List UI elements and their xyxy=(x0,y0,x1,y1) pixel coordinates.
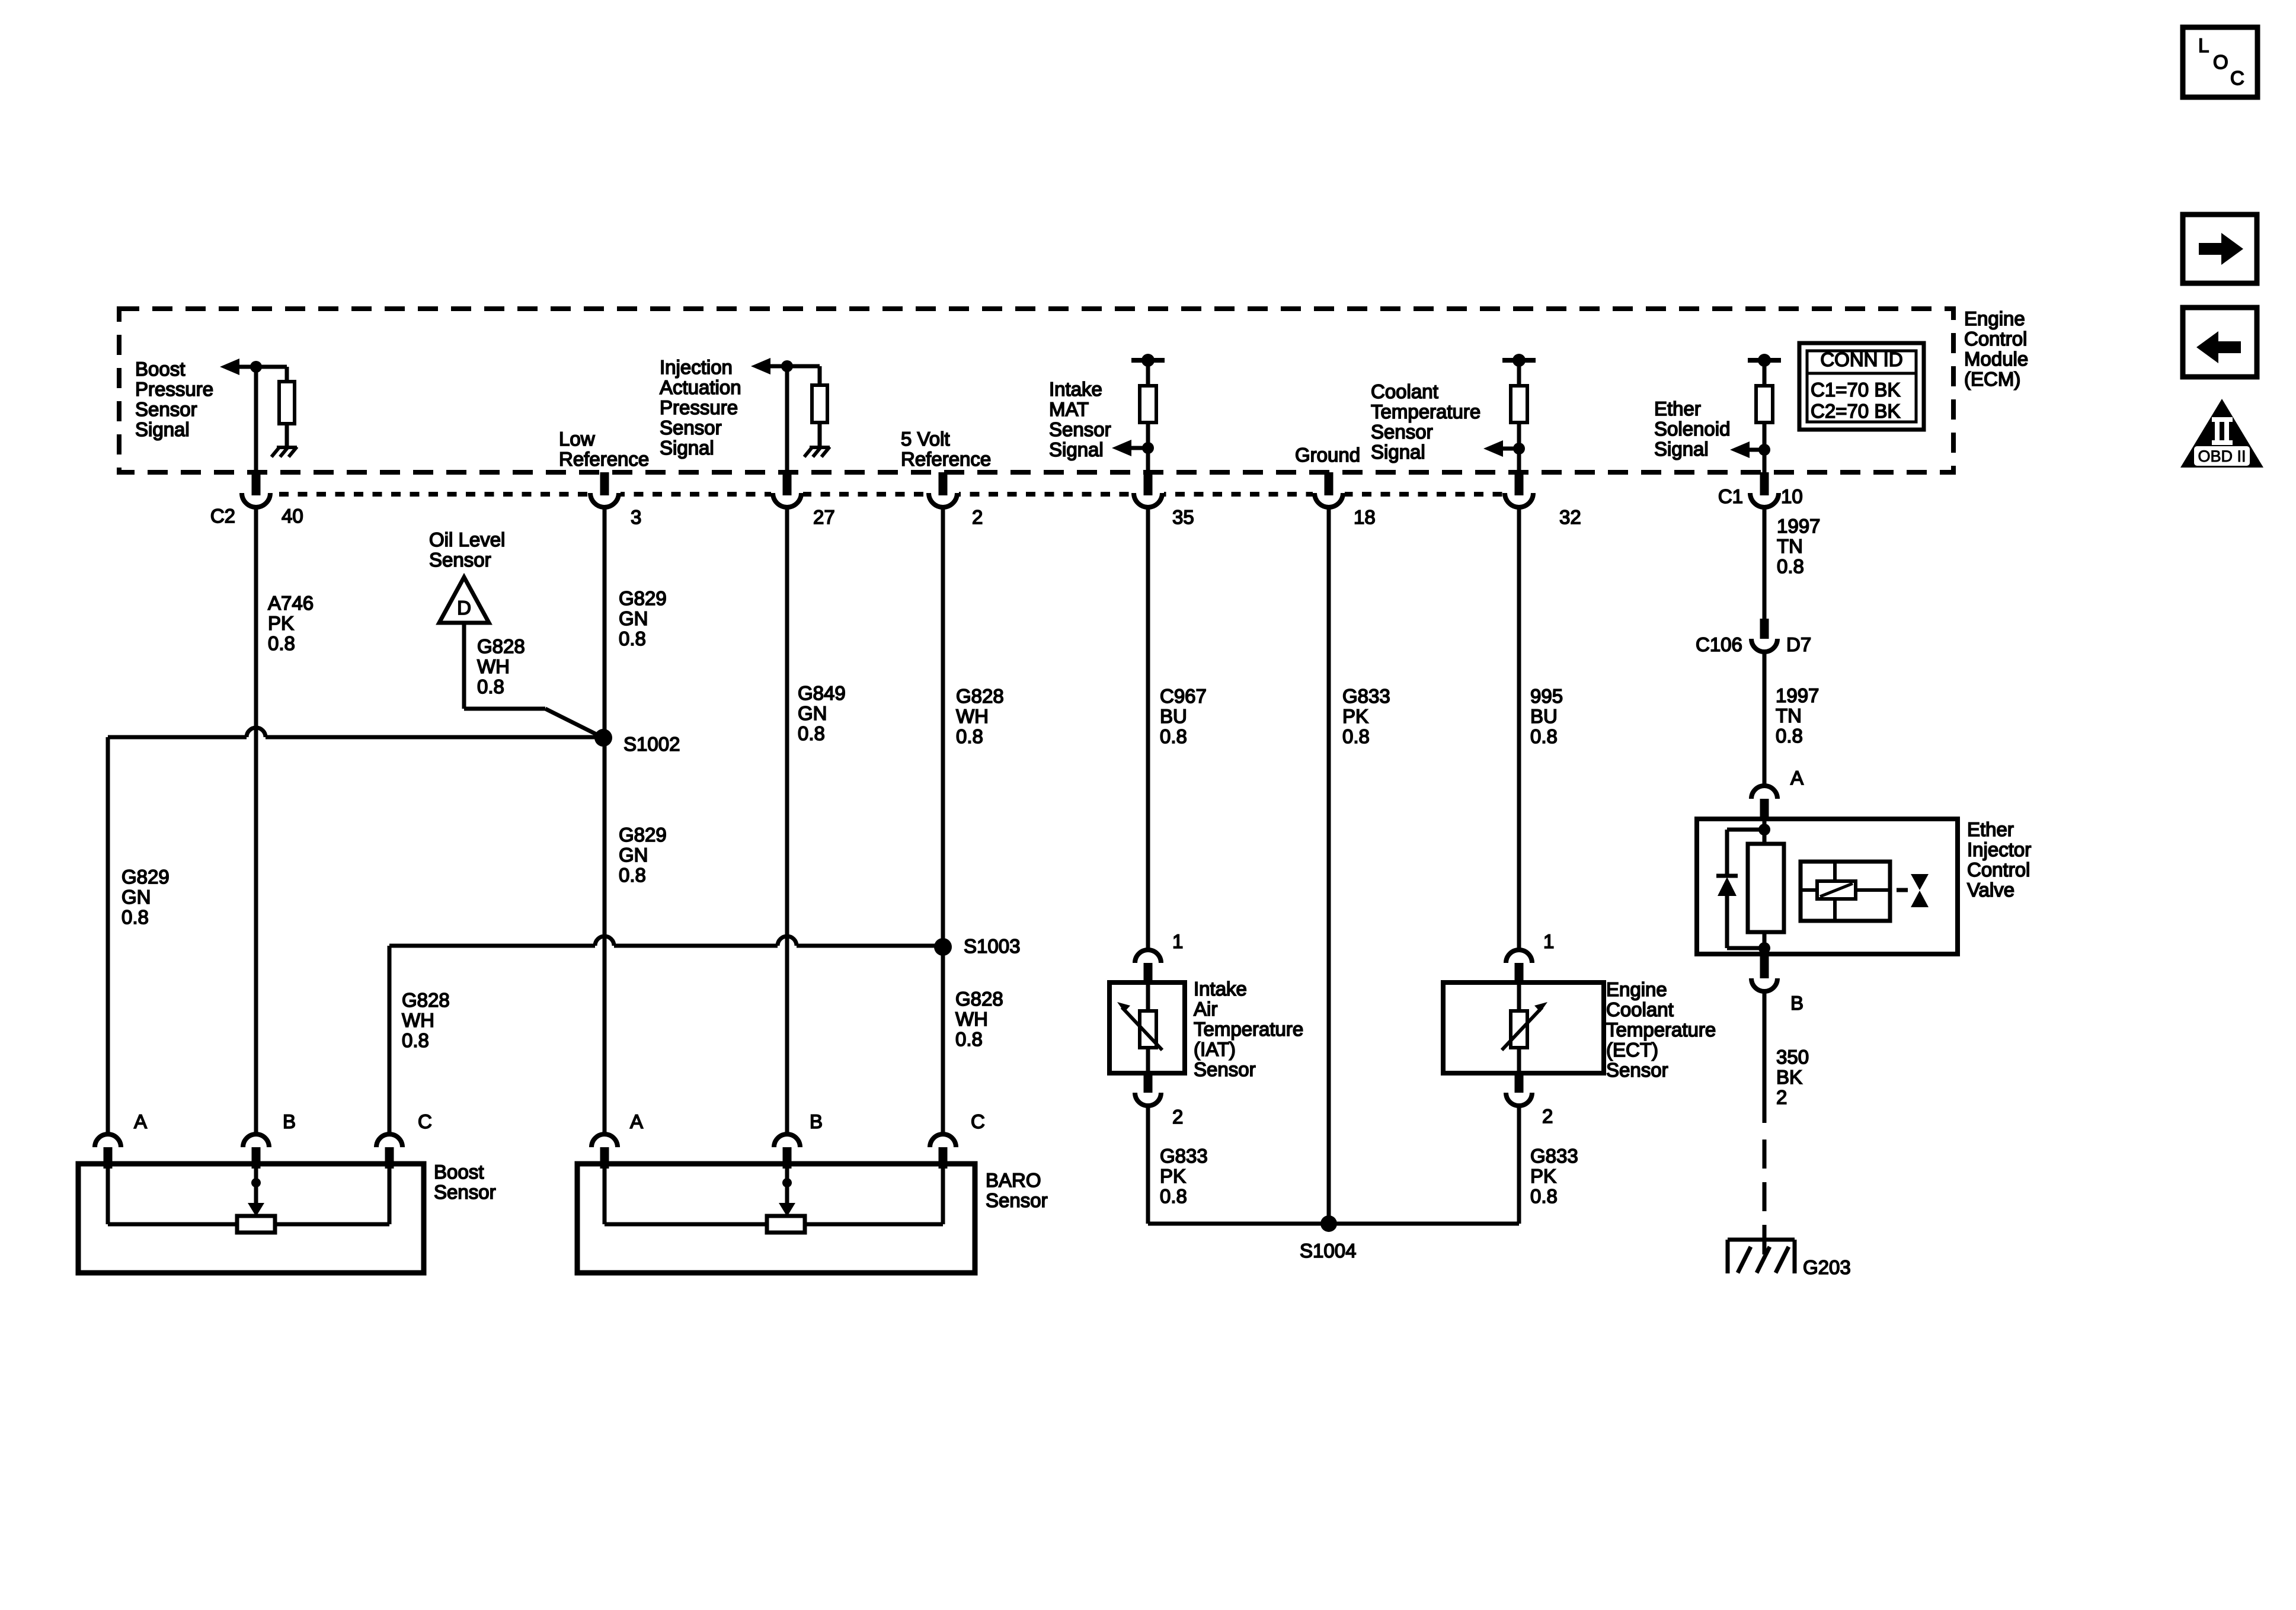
svg-text:1997: 1997 xyxy=(1776,684,1819,706)
svg-text:GN: GN xyxy=(121,886,151,908)
svg-text:0.8: 0.8 xyxy=(1160,725,1187,747)
svg-text:A: A xyxy=(630,1110,643,1132)
svg-text:350: 350 xyxy=(1776,1046,1809,1068)
svg-text:G828: G828 xyxy=(955,988,1003,1010)
svg-text:Coolant: Coolant xyxy=(1606,998,1674,1020)
svg-text:Pressure: Pressure xyxy=(660,396,738,418)
svg-text:Ether: Ether xyxy=(1967,818,2014,840)
svg-text:D: D xyxy=(457,597,471,619)
svg-text:WH: WH xyxy=(955,1008,988,1030)
svg-text:A746: A746 xyxy=(268,592,314,614)
svg-text:Temperature: Temperature xyxy=(1371,401,1480,422)
svg-text:S1002: S1002 xyxy=(623,733,680,755)
svg-text:G828: G828 xyxy=(477,635,525,657)
svg-text:0.8: 0.8 xyxy=(1342,725,1370,747)
svg-text:Ground: Ground xyxy=(1295,444,1360,466)
svg-text:GN: GN xyxy=(619,607,648,629)
svg-text:C1=70 BK: C1=70 BK xyxy=(1811,379,1900,401)
svg-text:3: 3 xyxy=(631,506,641,528)
svg-text:Pressure: Pressure xyxy=(135,378,213,400)
svg-text:0.8: 0.8 xyxy=(619,864,646,886)
svg-text:0.8: 0.8 xyxy=(798,722,825,744)
svg-text:0.8: 0.8 xyxy=(402,1029,429,1051)
svg-text:0.8: 0.8 xyxy=(956,725,983,747)
svg-text:1: 1 xyxy=(1172,930,1183,952)
svg-text:G833: G833 xyxy=(1342,685,1390,707)
svg-text:Module: Module xyxy=(1964,348,2028,370)
svg-text:Sensor: Sensor xyxy=(429,549,491,571)
svg-text:Control: Control xyxy=(1967,859,2030,881)
svg-text:Boost: Boost xyxy=(434,1161,484,1183)
svg-text:Coolant: Coolant xyxy=(1371,380,1438,402)
svg-text:0.8: 0.8 xyxy=(121,906,149,928)
svg-text:Low: Low xyxy=(559,428,595,450)
svg-text:Signal: Signal xyxy=(1049,438,1104,460)
svg-text:Sensor: Sensor xyxy=(660,417,722,438)
svg-text:18: 18 xyxy=(1354,506,1376,528)
svg-text:CONN ID: CONN ID xyxy=(1820,348,1902,370)
svg-text:A: A xyxy=(134,1110,147,1132)
svg-text:Solenoid: Solenoid xyxy=(1654,418,1730,440)
svg-text:B: B xyxy=(283,1110,296,1132)
svg-text:0.8: 0.8 xyxy=(477,676,504,697)
svg-text:Signal: Signal xyxy=(1371,441,1425,463)
svg-text:Sensor: Sensor xyxy=(434,1181,496,1203)
svg-text:0.8: 0.8 xyxy=(1160,1185,1187,1207)
svg-text:D7: D7 xyxy=(1786,633,1811,655)
svg-text:Engine: Engine xyxy=(1964,308,2025,329)
svg-text:10: 10 xyxy=(1781,485,1803,507)
svg-text:PK: PK xyxy=(1342,705,1368,727)
svg-text:O: O xyxy=(2213,51,2228,73)
svg-text:PK: PK xyxy=(1160,1165,1186,1187)
svg-text:35: 35 xyxy=(1172,506,1194,528)
svg-text:WH: WH xyxy=(402,1009,434,1031)
svg-text:Temperature: Temperature xyxy=(1194,1018,1303,1040)
svg-text:Reference: Reference xyxy=(901,448,991,470)
svg-text:Air: Air xyxy=(1194,998,1217,1020)
svg-text:1: 1 xyxy=(1543,930,1554,952)
svg-text:G849: G849 xyxy=(798,682,846,704)
svg-text:PK: PK xyxy=(1530,1165,1556,1187)
svg-text:2: 2 xyxy=(972,506,983,528)
svg-text:Boost: Boost xyxy=(135,358,185,380)
svg-text:2: 2 xyxy=(1776,1086,1787,1108)
svg-text:C: C xyxy=(971,1110,985,1132)
svg-text:Ether: Ether xyxy=(1654,398,1701,420)
svg-text:C: C xyxy=(2230,67,2244,89)
svg-text:OBD II: OBD II xyxy=(2198,447,2246,465)
svg-text:BU: BU xyxy=(1530,705,1558,727)
svg-text:S1003: S1003 xyxy=(964,935,1020,957)
svg-text:TN: TN xyxy=(1777,535,1803,557)
svg-text:G828: G828 xyxy=(402,989,450,1011)
svg-text:BU: BU xyxy=(1160,705,1187,727)
svg-text:Signal: Signal xyxy=(1654,438,1709,460)
svg-text:TN: TN xyxy=(1776,705,1802,726)
svg-text:Sensor: Sensor xyxy=(1606,1059,1668,1081)
svg-text:C2: C2 xyxy=(210,505,235,527)
svg-text:0.8: 0.8 xyxy=(268,632,295,654)
svg-text:Signal: Signal xyxy=(135,418,190,440)
svg-text:PK: PK xyxy=(268,612,294,634)
svg-text:C967: C967 xyxy=(1160,685,1207,707)
svg-text:Injector: Injector xyxy=(1967,838,2031,860)
svg-text:C2=70 BK: C2=70 BK xyxy=(1811,400,1900,422)
svg-text:G833: G833 xyxy=(1530,1145,1578,1167)
svg-text:A: A xyxy=(1790,767,1803,789)
svg-text:G828: G828 xyxy=(956,685,1004,707)
svg-text:G829: G829 xyxy=(619,587,667,609)
svg-text:C1: C1 xyxy=(1718,485,1743,507)
svg-text:(IAT): (IAT) xyxy=(1194,1038,1236,1060)
svg-text:0.8: 0.8 xyxy=(1777,555,1804,577)
svg-text:Actuation: Actuation xyxy=(660,376,741,398)
svg-text:G203: G203 xyxy=(1803,1256,1851,1278)
svg-text:995: 995 xyxy=(1530,685,1563,707)
svg-text:0.8: 0.8 xyxy=(619,628,646,649)
svg-text:Valve: Valve xyxy=(1967,879,2014,901)
svg-text:Oil Level: Oil Level xyxy=(429,529,505,550)
svg-text:WH: WH xyxy=(956,705,989,727)
svg-text:MAT: MAT xyxy=(1049,398,1089,420)
svg-text:0.8: 0.8 xyxy=(1530,725,1558,747)
svg-text:Intake: Intake xyxy=(1049,378,1102,400)
svg-text:S1004: S1004 xyxy=(1300,1240,1356,1262)
svg-text:BARO: BARO xyxy=(986,1169,1041,1191)
svg-text:BK: BK xyxy=(1776,1066,1802,1088)
svg-text:GN: GN xyxy=(798,702,827,724)
svg-text:0.8: 0.8 xyxy=(1776,725,1803,747)
svg-text:Sensor: Sensor xyxy=(986,1189,1048,1211)
svg-text:2: 2 xyxy=(1542,1105,1553,1127)
svg-text:Sensor: Sensor xyxy=(135,398,197,420)
svg-text:Intake: Intake xyxy=(1194,978,1247,1000)
svg-text:B: B xyxy=(1790,992,1803,1014)
svg-text:Sensor: Sensor xyxy=(1371,421,1433,443)
svg-text:GN: GN xyxy=(619,844,648,866)
svg-text:Temperature: Temperature xyxy=(1606,1019,1716,1041)
svg-text:G833: G833 xyxy=(1160,1145,1208,1167)
svg-text:G829: G829 xyxy=(121,866,170,888)
svg-text:WH: WH xyxy=(477,655,510,677)
svg-text:Sensor: Sensor xyxy=(1194,1058,1256,1080)
svg-text:0.8: 0.8 xyxy=(955,1028,983,1050)
svg-text:Reference: Reference xyxy=(559,448,649,470)
svg-text:Injection: Injection xyxy=(660,356,733,378)
svg-text:Control: Control xyxy=(1964,328,2027,350)
svg-text:32: 32 xyxy=(1559,506,1581,528)
svg-text:5 Volt: 5 Volt xyxy=(901,428,950,450)
svg-text:L: L xyxy=(2198,34,2209,56)
svg-text:0.8: 0.8 xyxy=(1530,1185,1558,1207)
svg-text:C: C xyxy=(418,1110,432,1132)
svg-text:1997: 1997 xyxy=(1777,515,1820,537)
svg-text:(ECM): (ECM) xyxy=(1964,368,2020,390)
svg-text:Sensor: Sensor xyxy=(1049,418,1111,440)
svg-text:Engine: Engine xyxy=(1606,978,1667,1000)
svg-text:27: 27 xyxy=(813,506,835,528)
svg-text:2: 2 xyxy=(1172,1106,1183,1128)
svg-text:40: 40 xyxy=(282,505,303,527)
svg-text:Signal: Signal xyxy=(660,437,714,459)
svg-text:G829: G829 xyxy=(619,824,667,846)
svg-text:B: B xyxy=(810,1110,823,1132)
svg-text:(ECT): (ECT) xyxy=(1606,1039,1658,1061)
svg-text:C106: C106 xyxy=(1696,633,1742,655)
